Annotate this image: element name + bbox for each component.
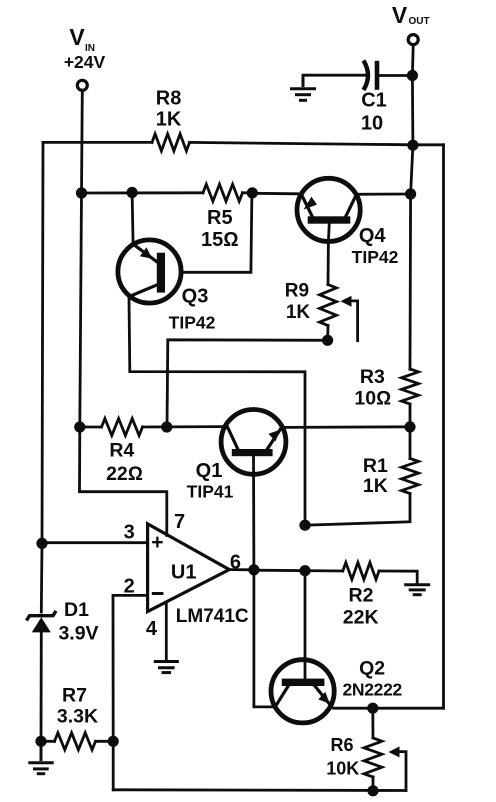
wire D1 to R7 — [40, 632, 43, 741]
wire left rail — [41, 142, 43, 612]
svg-text:Q3: Q3 — [182, 286, 209, 308]
terminal VOUT — [408, 35, 418, 45]
svg-text:R6: R6 — [330, 735, 353, 755]
wire R4 left — [80, 426, 102, 429]
svg-text:1K: 1K — [156, 108, 182, 130]
wire Q1 collector right — [286, 425, 410, 428]
svg-text:R3: R3 — [360, 366, 385, 388]
wire Q1 base down — [254, 456, 272, 707]
svg-text:R2: R2 — [349, 585, 374, 607]
svg-text:1K: 1K — [286, 302, 311, 323]
svg-text:15Ω: 15Ω — [201, 229, 239, 251]
wire Q2 collector right — [334, 707, 444, 710]
label Q1 — [187, 460, 234, 501]
svg-text:Q2: Q2 — [359, 657, 385, 679]
wire VIN rail y193 — [82, 191, 204, 194]
transistor Q3 — [118, 240, 181, 303]
wire output node to R2 — [254, 569, 343, 573]
svg-text:7: 7 — [174, 511, 185, 533]
wire Q3 collector down and across — [129, 298, 305, 525]
ground R2 — [404, 585, 430, 595]
ground U1 pin4 — [154, 662, 179, 673]
svg-text:3.9V: 3.9V — [58, 622, 98, 644]
resistor R3 — [402, 369, 419, 404]
wire R4 node to op-amp pin 7 — [80, 427, 167, 536]
svg-text:R1: R1 — [363, 455, 388, 477]
resistor R7 — [55, 733, 96, 750]
label R8 — [156, 88, 182, 131]
ground R7 — [28, 741, 53, 773]
resistor R8 — [152, 134, 190, 151]
ground C1 — [290, 75, 316, 100]
wire top rail right of R8 — [190, 142, 444, 144]
wire R5 to node — [243, 191, 253, 194]
wire VOUT rail down right side — [410, 45, 413, 369]
label U1 pins — [124, 511, 241, 640]
wire VIN vertical to R4 — [80, 91, 83, 427]
wire R2 right — [379, 571, 417, 584]
svg-text:2N2222: 2N2222 — [342, 679, 402, 699]
wire Q4 collector right — [356, 193, 411, 196]
node VOUT label — [392, 2, 430, 28]
label R5 — [201, 207, 239, 251]
svg-text:TIP42: TIP42 — [352, 247, 399, 267]
wire Q3 emitter top — [132, 193, 133, 245]
resistor R4 — [102, 419, 143, 436]
resistor R6 — [364, 738, 382, 777]
resistor R9 — [320, 285, 337, 326]
wire R7 left — [41, 740, 55, 743]
label R9 — [285, 281, 311, 323]
label Q3 — [169, 286, 216, 333]
wire Q2 base up — [304, 570, 307, 678]
svg-text:R9: R9 — [285, 281, 309, 302]
resistor R2 — [343, 563, 379, 580]
wire R9 bottom — [326, 326, 329, 341]
wire pin6 output — [229, 568, 254, 571]
svg-text:C1: C1 — [361, 90, 387, 112]
svg-text:Q1: Q1 — [196, 460, 223, 482]
wire bottom run — [113, 788, 406, 792]
svg-text:R7: R7 — [62, 685, 87, 707]
wire R7 right — [96, 740, 114, 743]
svg-text:10Ω: 10Ω — [354, 388, 391, 410]
svg-text:+: + — [151, 531, 163, 554]
svg-text:D1: D1 — [64, 599, 89, 621]
svg-text:LM741C: LM741C — [176, 606, 249, 627]
label D1 — [58, 599, 98, 644]
svg-text:OUT: OUT — [409, 16, 430, 27]
label Q2 — [342, 657, 402, 699]
svg-text:U1: U1 — [171, 562, 197, 584]
wire Q4 emitter left — [252, 192, 297, 195]
label R2 — [343, 585, 379, 629]
wire pin2 — [113, 595, 148, 789]
svg-text:10: 10 — [361, 113, 383, 135]
svg-text:3: 3 — [124, 521, 135, 543]
wire right rail — [442, 145, 445, 708]
op-amp U1 — [148, 524, 230, 612]
label C1 value — [361, 90, 387, 135]
wire R1 bottom to node — [305, 494, 410, 526]
wire C1 left — [303, 74, 368, 77]
label R1 — [363, 455, 388, 497]
junction dots — [76, 187, 87, 198]
label R4 — [106, 440, 143, 485]
svg-text:+24V: +24V — [64, 52, 106, 72]
label Q4 — [352, 225, 399, 267]
terminal VIN — [77, 80, 87, 90]
wire pin3 from left rail — [42, 541, 148, 544]
svg-text:V: V — [69, 24, 85, 50]
wire Q3 base right — [181, 193, 252, 272]
wire Q4 base to R9 — [327, 242, 330, 285]
wire R9 wiper — [341, 296, 358, 341]
svg-text:R4: R4 — [109, 440, 134, 462]
svg-text:V: V — [392, 2, 408, 28]
label R3 — [354, 366, 391, 410]
wire R6 bottom — [372, 777, 375, 791]
svg-text:R5: R5 — [207, 207, 233, 229]
svg-text:10K: 10K — [326, 759, 359, 779]
resistor R1 — [402, 459, 419, 494]
wire R3 to node — [409, 404, 412, 427]
zener diode D1 — [27, 611, 57, 633]
wire top rail left of R8 — [43, 141, 152, 144]
svg-text:R8: R8 — [156, 88, 182, 110]
wire R4 right to Q1 — [143, 425, 222, 428]
resistor R5 — [203, 184, 243, 201]
svg-text:22K: 22K — [343, 607, 379, 629]
svg-text:1K: 1K — [363, 475, 388, 497]
svg-text:22Ω: 22Ω — [106, 463, 143, 485]
label R7 — [57, 685, 98, 728]
svg-text:4: 4 — [146, 618, 158, 640]
label R6 — [326, 735, 359, 779]
transistor Q4 — [297, 178, 360, 241]
svg-text:3.3K: 3.3K — [57, 706, 98, 728]
wire R1 top — [409, 427, 412, 459]
wire R6 wiper — [389, 746, 407, 790]
transistor Q1 — [221, 410, 286, 475]
wire R6 top — [371, 708, 374, 738]
svg-text:Q4: Q4 — [359, 225, 387, 247]
transistor Q2 — [271, 660, 334, 723]
svg-text:TIP42: TIP42 — [169, 313, 216, 333]
wire R9 bottom run to R4 — [167, 340, 328, 427]
svg-text:TIP41: TIP41 — [187, 481, 234, 501]
capacitor C1 — [364, 61, 378, 91]
wire C1 right — [379, 74, 412, 77]
wire pin4 — [165, 603, 168, 660]
node VIN label — [64, 24, 106, 72]
